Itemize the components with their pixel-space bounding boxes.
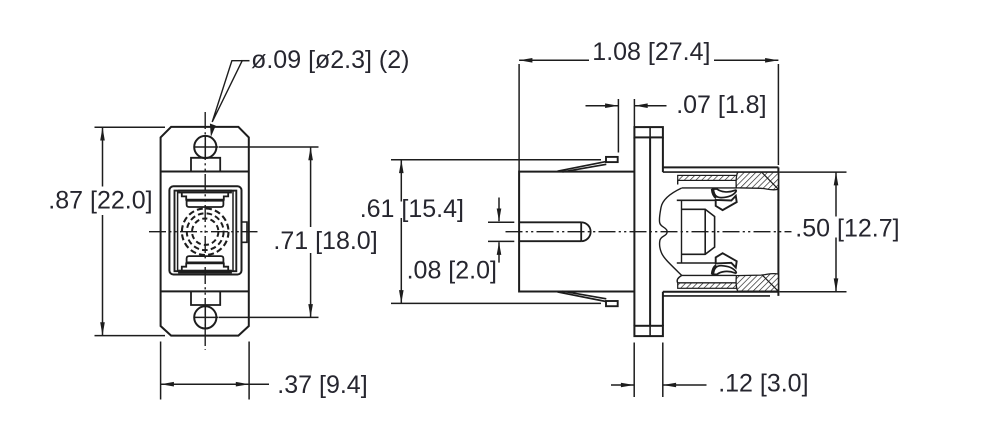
top mounting hole xyxy=(194,136,216,158)
ext line right xyxy=(777,64,779,165)
bottom hatch wedge xyxy=(736,273,778,291)
ferrule sleeve circle middle xyxy=(187,213,224,250)
right inner rail xyxy=(232,191,234,272)
top arrowhead xyxy=(497,209,502,222)
bottom key step xyxy=(182,263,228,270)
svg-text:.12 [3.0]: .12 [3.0] xyxy=(718,370,808,398)
right arrow line xyxy=(634,105,666,107)
svg-text:.71 [18.0]: .71 [18.0] xyxy=(273,227,377,255)
shell right edge xyxy=(777,167,779,296)
left arrow line xyxy=(586,105,619,107)
ext line bottom xyxy=(391,302,601,304)
SC port outer frame xyxy=(169,186,241,274)
arrow left xyxy=(519,58,532,63)
ext line bottom hole xyxy=(219,316,319,318)
retainer step bottom edge xyxy=(677,262,716,264)
bottom latch tip xyxy=(606,301,618,306)
ferrule sleeve circle outer xyxy=(182,208,229,255)
arrow up xyxy=(834,172,839,185)
body outline xyxy=(519,172,634,292)
leader needle triangle xyxy=(212,61,242,122)
flange right edge xyxy=(649,137,651,325)
bottom key bar C xyxy=(187,256,224,262)
shell bottom lip line xyxy=(663,295,770,297)
ext line left xyxy=(518,64,520,171)
dim line lower segment xyxy=(310,253,312,317)
left arrow line xyxy=(611,384,634,386)
top key bar A xyxy=(179,191,231,193)
bottom hatch band xyxy=(678,283,737,288)
ext tick top xyxy=(488,221,514,223)
pin rounded cap xyxy=(581,222,590,241)
dim line right segment xyxy=(714,59,778,61)
bottom retainer bar xyxy=(677,275,736,283)
dim line upper segment xyxy=(102,127,104,186)
top arrow line xyxy=(498,198,500,222)
ext line left xyxy=(633,343,635,398)
ext line top xyxy=(391,159,601,161)
split sleeve face line xyxy=(704,209,706,254)
svg-text:.37 [9.4]: .37 [9.4] xyxy=(277,371,367,399)
arrow up xyxy=(399,160,404,173)
ext line right xyxy=(662,343,664,398)
right arrowhead xyxy=(663,383,676,388)
leader arrowhead xyxy=(210,124,216,137)
svg-text:.07 [1.8]: .07 [1.8] xyxy=(676,91,766,119)
arrow down xyxy=(399,290,404,303)
flange top cap divider xyxy=(649,127,651,137)
top tab xyxy=(191,158,220,172)
arrow up xyxy=(308,147,313,160)
flange bottom cap xyxy=(634,326,663,336)
dim line upper segment xyxy=(310,147,312,227)
leader hook xyxy=(241,60,250,62)
dim tail right xyxy=(249,383,269,385)
ext line right xyxy=(248,342,250,400)
bottom crescent clip xyxy=(713,266,737,275)
flange left edge xyxy=(633,137,635,325)
top latch tip xyxy=(606,157,618,162)
dim line xyxy=(835,172,837,216)
top key step xyxy=(182,193,228,200)
press-fit pin top line xyxy=(519,221,582,223)
svg-text:.50 [12.7]: .50 [12.7] xyxy=(795,215,899,243)
right arrow line xyxy=(663,384,707,386)
top retainer bar xyxy=(678,180,737,188)
bottom arrow line xyxy=(498,242,500,262)
ext line bottom xyxy=(95,335,166,337)
svg-text:.61 [15.4]: .61 [15.4] xyxy=(360,195,464,223)
bottom arrowhead xyxy=(497,242,502,255)
left arrowhead xyxy=(621,383,634,388)
bottom key bar A xyxy=(179,271,231,273)
vertical centerline front view xyxy=(204,112,206,350)
shell left vertical bottom xyxy=(662,292,664,326)
flange bottom cap divider xyxy=(649,326,651,336)
ext line top hole xyxy=(219,146,319,148)
bottom mounting hole xyxy=(194,306,216,328)
arrow down xyxy=(308,304,313,317)
svg-text:1.08 [27.4]: 1.08 [27.4] xyxy=(592,38,710,66)
bottom arrow clip xyxy=(716,253,737,267)
ext line top xyxy=(95,126,166,128)
svg-text:.08 [2.0]: .08 [2.0] xyxy=(407,257,497,285)
top arrow clip xyxy=(716,196,737,210)
ext line right xyxy=(633,99,635,127)
top crescent clip xyxy=(713,189,737,198)
bottom crescent left rim xyxy=(713,266,717,275)
pin cap base line xyxy=(580,222,582,241)
arrow down xyxy=(834,278,839,291)
split sleeve left edge xyxy=(681,200,683,263)
horizontal centerline front view xyxy=(149,231,258,233)
shell top main line xyxy=(663,171,779,173)
ext tick bottom xyxy=(488,240,514,242)
shell top lip line xyxy=(663,166,779,168)
right side tab xyxy=(242,222,248,242)
svg-text:.87 [22.0]: .87 [22.0] xyxy=(48,187,152,215)
press-fit pin bottom line xyxy=(519,240,582,242)
shell bottom main line xyxy=(663,291,779,293)
ext line left xyxy=(160,342,162,400)
dim line lower segment xyxy=(102,215,104,336)
ext line bottom xyxy=(780,291,847,293)
break wave xyxy=(659,188,681,275)
top hole crosshair xyxy=(195,136,219,158)
dim line xyxy=(400,160,402,202)
ext line top xyxy=(780,171,847,173)
arrow left xyxy=(161,382,174,387)
adapter body outline (octagon) xyxy=(161,127,249,336)
svg-text:ø.09 [ø2.3] (2): ø.09 [ø2.3] (2) xyxy=(251,46,409,74)
bottom hole crosshair xyxy=(195,306,219,328)
right arrowhead xyxy=(634,103,647,108)
retainer step top edge xyxy=(677,199,716,201)
body band line upper xyxy=(161,171,249,173)
top hatch wedge xyxy=(736,172,778,190)
left inner rail xyxy=(177,191,179,272)
top latch blade xyxy=(558,162,607,172)
ext line left xyxy=(617,99,619,153)
bottom latch blade xyxy=(558,291,607,301)
shell left vertical top xyxy=(662,137,664,172)
left arrowhead xyxy=(605,103,618,108)
body band line lower xyxy=(161,290,249,292)
dim line xyxy=(161,383,250,385)
top hatch band xyxy=(678,175,738,180)
arrow down xyxy=(100,322,105,335)
arrow up xyxy=(100,127,105,140)
arrow right xyxy=(765,58,778,63)
wedge cross lines xyxy=(762,173,778,291)
split sleeve outline xyxy=(682,209,715,254)
flange top cap xyxy=(634,127,663,137)
SC port inner frame xyxy=(175,191,237,272)
bottom tab xyxy=(191,291,220,305)
arrow right xyxy=(236,382,249,387)
ferrule sleeve circle inner xyxy=(192,219,218,245)
side view centerline xyxy=(506,231,792,233)
dim line left segment xyxy=(519,59,589,61)
top crescent left rim xyxy=(713,189,717,198)
top key bar C xyxy=(187,201,224,207)
